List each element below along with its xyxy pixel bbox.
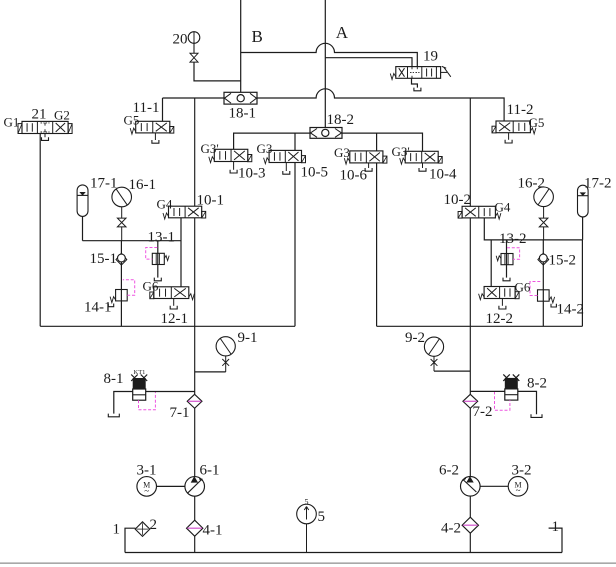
strainer 2 <box>135 522 150 537</box>
wire valve 10-5 down to left frame line <box>294 163 296 327</box>
solenoid valve 10-6 (G3) <box>350 151 383 163</box>
motor 3-2 <box>508 477 528 497</box>
wire 18-2 right port to valves 10-6 and 10-4 <box>342 133 423 151</box>
overflow valve 14-1 <box>116 290 128 301</box>
svg-text:G5: G5 <box>124 113 140 128</box>
svg-text:G4: G4 <box>157 197 173 212</box>
tank for valve 8-2 <box>531 414 542 417</box>
wire from valve 20 to node B <box>194 62 241 81</box>
pressure valve 13-1 <box>152 253 164 264</box>
filter 4-1 <box>187 520 203 536</box>
needle valve under gauge 9-1 <box>225 356 227 372</box>
solenoid valve 12-2 (G6) <box>484 287 515 299</box>
shaft 3-1 to 6-1 <box>157 485 185 487</box>
unloading valve 8-2 <box>505 378 518 389</box>
temperature gauge 5 <box>297 504 317 524</box>
solenoid valve 10-3 (G3') <box>214 149 248 161</box>
wire header to valve 13-1 and tank <box>157 241 159 278</box>
shut-off valve under gauge 16-2 <box>543 207 545 219</box>
wire 18-1 right port to valve 11-2 with hump over A, junction at right trunk <box>257 89 504 121</box>
pressure valve 13-2 <box>501 254 513 265</box>
solenoid valve 10-4 (G3') <box>405 151 438 163</box>
svg-text:3-1: 3-1 <box>137 463 157 479</box>
wire B to valve 19 port a (hline y=52.5 with crossover hump at A) <box>241 43 418 66</box>
svg-text:14-1: 14-1 <box>84 300 112 316</box>
wire header down through 15-2 and 14-2 to frame line <box>542 240 544 326</box>
svg-text:8-1: 8-1 <box>104 371 124 387</box>
svg-text:7-1: 7-1 <box>170 405 190 421</box>
wire right end riser <box>549 528 562 552</box>
svg-text:20: 20 <box>173 32 188 48</box>
wire valve 10-2 bottom port to right header <box>484 218 582 240</box>
pump 6-2 <box>461 477 481 497</box>
tank under valve 13-1 <box>154 278 161 281</box>
svg-text:~: ~ <box>144 486 149 496</box>
wire gauge 5 to bottom line <box>306 524 308 553</box>
solenoid valve 10-1 (G4) <box>169 206 202 218</box>
svg-text:16-2: 16-2 <box>518 176 546 192</box>
gauge 9-2 <box>424 337 443 356</box>
accumulator 17-2 <box>578 185 589 217</box>
svg-text:1: 1 <box>552 519 560 535</box>
svg-text:~: ~ <box>516 486 521 496</box>
svg-text:4-2: 4-2 <box>441 521 461 537</box>
tank under valve 13-2 <box>503 278 510 281</box>
svg-text:12-2: 12-2 <box>486 311 514 327</box>
svg-text:G3: G3 <box>334 145 350 160</box>
svg-text:G3': G3' <box>392 144 410 159</box>
svg-text:B: B <box>252 27 263 46</box>
svg-text:10-2: 10-2 <box>444 192 472 208</box>
wire header to valve 13-2 and tank <box>506 240 508 278</box>
check valve 15-1 <box>116 253 127 265</box>
svg-text:8-2: 8-2 <box>527 376 547 392</box>
wire valve 8-2 to tank <box>518 391 537 414</box>
svg-text:G6: G6 <box>143 279 159 294</box>
tank under valve 19 <box>414 88 421 91</box>
svg-text:1: 1 <box>113 522 121 538</box>
svg-text:3-2: 3-2 <box>512 463 532 479</box>
svg-text:5: 5 <box>305 498 309 507</box>
svg-text:14-2: 14-2 <box>557 302 585 318</box>
svg-text:17-2: 17-2 <box>584 176 612 192</box>
check valve 15-2 <box>538 253 549 265</box>
svg-text:G3': G3' <box>201 141 219 156</box>
svg-text:19: 19 <box>423 49 438 65</box>
svg-text:12-1: 12-1 <box>161 311 189 327</box>
left frame line <box>40 325 295 327</box>
svg-text:5: 5 <box>318 509 326 525</box>
shut-off valve under gauge 16-1 <box>121 207 123 218</box>
wire 7-1 to pump 6-1 <box>194 408 196 476</box>
tank under valve 10-5 <box>285 163 287 172</box>
wire valve 8-1 to left trunk <box>146 391 195 393</box>
svg-text:18-1: 18-1 <box>229 106 257 122</box>
filter 4-2 <box>462 517 478 533</box>
svg-text:16-1: 16-1 <box>129 177 157 193</box>
wire gauge 9-2 to right trunk <box>434 370 470 372</box>
wire valve 21 drain down to left frame line <box>39 134 41 327</box>
svg-text:6-2: 6-2 <box>439 463 459 479</box>
gauge 16-1 <box>112 187 132 207</box>
svg-text:A: A <box>336 23 349 42</box>
solenoid valve 10-5 (G3) <box>269 150 301 162</box>
svg-text:10-5: 10-5 <box>301 165 329 181</box>
wire B vertical line <box>240 0 242 92</box>
svg-text:9-2: 9-2 <box>405 330 425 346</box>
wire left accumulator header <box>83 240 182 242</box>
accumulator 17-1 <box>77 185 88 216</box>
wire 18-2 left port to valves 10-3 and 10-5 <box>234 133 310 149</box>
wire valve 8-1 to tank <box>114 392 133 414</box>
solenoid valve 21 (G1/G2) <box>22 121 68 133</box>
tank under valve 12-2 <box>501 299 503 306</box>
wire valve 10-1 bottom port to header and valve 12-1 <box>180 218 182 287</box>
bottom tank line <box>125 552 562 554</box>
svg-text:2: 2 <box>150 517 158 533</box>
wire pump 6-1 to filter 4-1 <box>194 496 196 520</box>
wire gauge 9-1 to left trunk <box>195 371 226 373</box>
needle valve under gauge 9-2 <box>433 356 435 371</box>
gauge 16-2 <box>534 187 554 207</box>
directional valve 19 <box>396 67 441 79</box>
svg-text:G3: G3 <box>257 141 273 156</box>
solenoid valve 12-1 (G6) <box>154 287 189 299</box>
gauge 20 <box>188 32 200 44</box>
svg-text:10-3: 10-3 <box>238 166 266 182</box>
wire pump 6-2 to filter 4-2 <box>469 496 471 517</box>
tank under valve 10-4 <box>422 163 424 168</box>
svg-text:G5: G5 <box>529 115 545 130</box>
shuttle valve 18-1 <box>224 92 257 104</box>
drain of valve 19 to tank <box>412 78 418 87</box>
wire accumulator 17-2 to header and down to right frame line <box>582 217 584 240</box>
svg-text:KT1: KT1 <box>134 369 146 376</box>
svg-text:21: 21 <box>32 107 47 123</box>
wire filter 4-2 to bottom line <box>469 533 471 552</box>
svg-text:4-1: 4-1 <box>203 523 223 539</box>
wire header down through 15-1 and 14-1 to frame line <box>120 241 122 327</box>
shaft 6-2 to 3-2 <box>480 485 508 487</box>
unloading valve 8-1 (KT1) <box>133 378 146 389</box>
wire header down to valve 12-2 <box>490 240 492 287</box>
wire 18-1 left port to valve 11-1 (junction to 10-1 trunk) <box>163 97 225 99</box>
svg-text:10-6: 10-6 <box>340 168 368 184</box>
wire right trunk upper (y98 junction down to valve 10-2) <box>469 98 471 206</box>
svg-text:13-2: 13-2 <box>499 231 527 247</box>
bottom border line <box>0 562 616 564</box>
svg-text:18-2: 18-2 <box>327 112 355 128</box>
svg-text:6-1: 6-1 <box>200 463 220 479</box>
svg-text:9-1: 9-1 <box>238 330 258 346</box>
shut-off valve under gauge 20 <box>193 43 195 53</box>
wire right trunk through frame down past 7-2 <box>469 218 471 394</box>
wire filter 4-1 to bottom line <box>194 536 196 552</box>
filter 7-1 <box>187 394 202 408</box>
tank under valve 11-1 <box>154 133 156 140</box>
wire accumulator 17-1 to header <box>82 216 84 240</box>
svg-text:15-2: 15-2 <box>549 253 577 269</box>
overflow valve 14-2 <box>538 290 550 301</box>
wire A vertical line <box>324 0 326 128</box>
svg-text:13-1: 13-1 <box>148 230 176 246</box>
svg-text:10-1: 10-1 <box>197 193 225 209</box>
svg-text:G4: G4 <box>495 200 511 215</box>
wire 7-2 to pump 6-2 <box>469 408 471 476</box>
wire left end riser with strainer 2 <box>125 528 135 552</box>
svg-text:G1: G1 <box>4 115 20 130</box>
wire valve 8-2 to right trunk <box>470 390 505 392</box>
tank under valve 11-2 <box>508 133 510 140</box>
shuttle valve 18-2 <box>310 128 342 139</box>
solenoid valve 11-1 (G5) <box>136 121 170 133</box>
motor 3-1 <box>137 477 157 497</box>
svg-text:17-1: 17-1 <box>90 176 118 192</box>
tank under valve 10-3 <box>233 162 235 170</box>
wire A to valve 19 port b <box>325 58 412 67</box>
right frame line <box>377 325 583 327</box>
svg-text:G2: G2 <box>54 108 70 123</box>
svg-text:7-2: 7-2 <box>473 404 493 420</box>
svg-text:10-4: 10-4 <box>429 167 457 183</box>
wire valve 10-6 down to right frame line <box>376 163 378 326</box>
svg-text:G6: G6 <box>515 280 531 295</box>
filter 7-2 <box>463 394 478 408</box>
tank for valve 8-1 <box>108 414 119 417</box>
svg-text:15-1: 15-1 <box>90 251 118 267</box>
tank under valve 10-6 <box>368 163 370 168</box>
tank under valve 12-1 <box>173 299 175 306</box>
tank under valve 21 <box>44 134 46 138</box>
wire left trunk upper (y98 junction down to valve 10-1) <box>194 98 196 206</box>
wire left trunk through frame down past 7-1 <box>194 218 196 394</box>
lever on valve 19 <box>441 71 447 73</box>
gauge 9-1 <box>216 337 235 356</box>
solenoid valve 11-2 (G5) <box>496 121 530 133</box>
solenoid valve 10-2 (G4) <box>462 206 495 218</box>
pump 6-1 <box>185 477 205 497</box>
